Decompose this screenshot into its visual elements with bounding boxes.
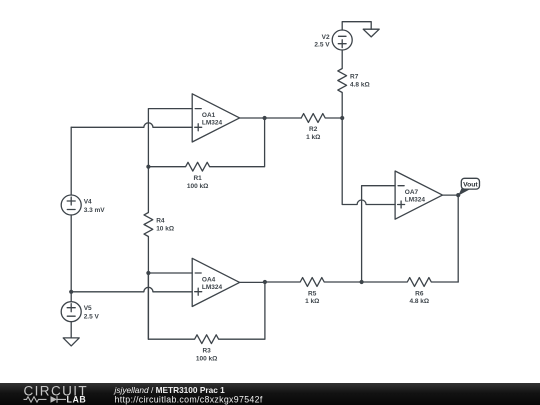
- svg-text:R6: R6: [415, 290, 424, 297]
- svg-text:R2: R2: [309, 126, 318, 133]
- svg-text:OA4: OA4: [202, 276, 216, 283]
- resistor R2: [301, 114, 342, 123]
- wire OA4 output: [240, 281, 265, 283]
- wire left rail top: [70, 127, 72, 195]
- ground (bottom left): [63, 338, 79, 346]
- svg-text:2.5 V: 2.5 V: [314, 42, 330, 49]
- wire V2 top to ground: [342, 22, 371, 30]
- svg-text:3.3 mV: 3.3 mV: [84, 207, 106, 214]
- svg-text:100 kΩ: 100 kΩ: [196, 355, 217, 362]
- svg-text:4.8 kΩ: 4.8 kΩ: [350, 81, 370, 88]
- wire R4 to R3 corner: [147, 273, 149, 339]
- resistor R6: [362, 278, 459, 287]
- svg-text:V2: V2: [322, 34, 330, 41]
- node Vout flag: [458, 178, 479, 195]
- svg-text:R5: R5: [308, 290, 317, 297]
- wire OA1 plus input (with hop): [71, 123, 192, 127]
- svg-text:4.8 kΩ: 4.8 kΩ: [409, 298, 429, 305]
- svg-text:V5: V5: [84, 305, 92, 312]
- svg-text:2.5 V: 2.5 V: [84, 314, 100, 321]
- svg-text:R3: R3: [202, 348, 211, 355]
- svg-text:http://circuitlab.com/c8xzkgx9: http://circuitlab.com/c8xzkgx97542f: [115, 395, 263, 405]
- wire OA7 minus input down to R5-R6 node: [362, 186, 396, 282]
- op-amp OA4: [192, 258, 239, 306]
- svg-text:LM324: LM324: [202, 119, 223, 126]
- footer bar: [0, 383, 540, 405]
- wire V5 to ground: [70, 322, 72, 338]
- wire OA1 output: [240, 117, 302, 119]
- svg-text:1 kΩ: 1 kΩ: [305, 298, 319, 305]
- wire OA4 plus input (with hop): [71, 287, 192, 291]
- svg-text:10 kΩ: 10 kΩ: [156, 225, 174, 232]
- svg-text:jsjyelland / METR3100 Prac 1: jsjyelland / METR3100 Prac 1: [114, 385, 226, 395]
- svg-text:R7: R7: [350, 74, 359, 81]
- svg-text:R1: R1: [193, 175, 202, 182]
- svg-text:V4: V4: [84, 199, 92, 206]
- ground (top right): [363, 29, 379, 37]
- svg-text:LM324: LM324: [405, 197, 426, 204]
- op-amp OA7: [395, 171, 442, 219]
- wire left rail middle: [70, 215, 72, 302]
- svg-text:1 kΩ: 1 kΩ: [306, 134, 320, 141]
- wire OA4 minus input: [148, 272, 192, 274]
- resistor R3: [148, 273, 265, 344]
- svg-text:R4: R4: [156, 218, 165, 225]
- wire OA7 output: [443, 195, 459, 282]
- voltage source V5: [61, 302, 81, 322]
- voltage source V4: [61, 195, 81, 215]
- svg-text:LM324: LM324: [202, 284, 223, 291]
- svg-text:OA1: OA1: [202, 112, 216, 119]
- svg-text:OA7: OA7: [405, 189, 419, 196]
- op-amp OA1: [192, 94, 239, 142]
- node junction dots: [69, 116, 460, 294]
- resistor R4: [144, 167, 153, 273]
- svg-text:LAB: LAB: [67, 395, 87, 405]
- voltage source V2: [332, 30, 352, 50]
- wire R7 to OA7 plus input (with hop): [342, 118, 395, 205]
- resistor R5: [265, 278, 362, 287]
- svg-text:100 kΩ: 100 kΩ: [187, 183, 208, 190]
- wire OA1 minus input: [148, 109, 192, 167]
- resistor R1: [148, 118, 264, 171]
- CircuitLab logo symbol (resistor + diode): [24, 396, 67, 403]
- svg-text:Vout: Vout: [463, 181, 478, 188]
- resistor R7: [338, 50, 347, 118]
